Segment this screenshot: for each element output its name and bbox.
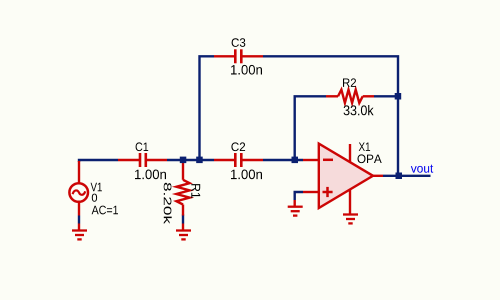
pin: power (top) [349,144,351,163]
junction node R2 right [395,93,402,100]
label C3 [232,38,246,47]
wire: V1 bottom to ground [78,216,80,224]
op-amp U1 (X1 OPA) [303,144,383,208]
value 1.00n (C2) [231,170,262,180]
label R2 [343,78,356,87]
value AC=1 (V1) [92,206,118,215]
label OPA [358,154,382,163]
capacitor C2 [214,153,263,167]
label C1 [136,142,149,151]
wire: vertical from node B up to C3 [200,56,215,160]
value 8.20k (R1, rotated) [164,183,172,224]
ground (below R1) [176,224,191,240]
wire: R1 bottom to ground [182,215,184,224]
plus sign [323,191,333,194]
capacitor C3 [214,49,263,63]
junction node inverting input [292,157,299,164]
label V1 [91,183,102,192]
pin: non-inverting input [303,191,319,193]
wire: inverting node up and right to R2 [295,96,326,160]
ground (below V1) [72,224,87,240]
capacitor C1 [118,153,167,167]
resistor R2 [326,90,374,103]
minus sign [323,159,333,162]
label C2 [231,142,245,151]
value 0 (V1) [92,194,97,202]
label X1 [359,143,370,151]
value 1.00n (C1) [135,170,166,180]
pin: inverting input [303,159,319,161]
junction node output [396,173,403,180]
ground (non-inverting input) [288,200,303,216]
resistor R1 [176,160,189,216]
wire: non-inverting input to ground [295,192,303,200]
voltage source V1 [69,161,88,216]
wire: R2 right to vertical feedback wire [374,95,398,97]
label R1 (rotated) [191,184,200,198]
pin: output [371,175,383,177]
ground (op-amp bottom pin) [343,190,358,224]
wire: C2 right to inverting node [263,159,303,161]
net label vout [411,165,433,173]
junction node B1 (C1/R1) [180,157,187,164]
wire: op-amp output to vout [383,175,431,177]
junction node B2 (C3 branch) [196,157,203,164]
value 33.0k (R2) [344,105,374,115]
wire: main input horizontal V1 to C1 [79,160,118,162]
value 1.00n (C3) [231,65,262,75]
wire: C3 right to top-right corner down to output node [263,56,398,176]
wire: C1 right to C2 left [167,159,214,161]
